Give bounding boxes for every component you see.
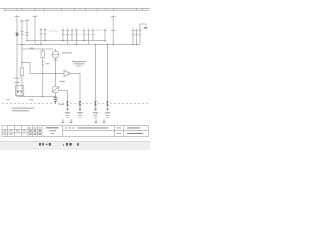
- separator dashed line: [2, 103, 149, 105]
- title block revision ticks: [62, 120, 106, 123]
- amp output wire: [71, 74, 81, 111]
- bus ticks: [5, 8, 143, 10]
- connector X67: [66, 101, 69, 105]
- title block: [2, 126, 148, 137]
- terminal group TG2: [62, 31, 79, 35]
- wire below F1: [42, 58, 44, 97]
- ground G4: [107, 109, 109, 111]
- terminal group TG4 right: [132, 31, 142, 35]
- ground G3: [95, 109, 97, 111]
- wire drop x35 cap: [33, 16, 38, 18]
- fuse F1: [42, 49, 44, 51]
- note text under separator: [12, 108, 34, 109]
- bus L2: [4, 9, 150, 11]
- terminal group TG1 x41: [40, 30, 43, 34]
- contact dash x17 y78: [14, 77, 21, 79]
- K1 label: [17, 91, 19, 93]
- M1 right branch: [59, 91, 68, 111]
- node line D: [17, 96, 56, 98]
- terminal mark below P1: [54, 59, 57, 61]
- labels small text: [30, 30, 111, 118]
- net label x30: [30, 99, 34, 100]
- wire x22 vertical: [21, 20, 23, 68]
- contact dash x17 y82.5: [14, 82, 20, 84]
- title block texts: [3, 127, 143, 135]
- net label left: [7, 99, 10, 100]
- terminal group TG1 x45: [44, 30, 47, 34]
- page bottom edge: [0, 142, 150, 151]
- wire x35 vertical: [34, 15, 36, 44]
- horn B1 dome: [143, 27, 148, 28]
- bus line A: [27, 40, 105, 42]
- amp input line: [30, 73, 64, 75]
- terminal marks on F1 wire: [42, 61, 44, 63]
- wire drop x22 cap: [20, 20, 24, 22]
- connector X107: [106, 101, 109, 105]
- cross cap x113: [111, 29, 115, 31]
- ground G1: [67, 109, 69, 111]
- fuse symbol on x17: [16, 33, 19, 37]
- branch from x22: [22, 63, 30, 74]
- wire below R1: [21, 76, 23, 97]
- terminal group TG3: [83, 31, 95, 35]
- connector X95: [94, 101, 97, 105]
- wire drop x113 cap: [111, 16, 116, 18]
- ground G2: [79, 109, 81, 111]
- wire x45: [44, 29, 46, 41]
- wire drop x27 cap: [25, 20, 29, 22]
- cable arrow W1: [54, 96, 58, 99]
- wire x105: [104, 30, 106, 41]
- wire x113 vertical: [112, 16, 114, 45]
- wire below M1: [55, 93, 57, 100]
- wire x105 cap: [104, 30, 107, 32]
- junction dots: [21, 40, 137, 98]
- amplifier U1: [64, 71, 71, 77]
- wire x41: [40, 29, 42, 45]
- TG2 wires: [63, 30, 77, 45]
- bus line C: [22, 48, 53, 50]
- TG4 wires: [133, 30, 140, 45]
- resistor R1: [20, 68, 23, 76]
- horn wire top right: [140, 24, 146, 32]
- bus line B: [17, 44, 140, 46]
- wire drop x17 cap: [15, 16, 20, 18]
- wire x27 vertical: [26, 19, 28, 40]
- bus L1 top: [0, 8, 150, 10]
- terminal marks x27: [26, 32, 29, 34]
- terminal marks x22: [21, 31, 24, 33]
- long wire x95.5: [95, 45, 97, 111]
- wire x17 vertical: [16, 15, 18, 96]
- long wire x107.5: [107, 45, 109, 111]
- wire below P1: [55, 58, 57, 86]
- gauge P1: [55, 49, 57, 51]
- motor M1: [52, 86, 59, 93]
- connector X80: [79, 101, 82, 105]
- device box K1: [16, 86, 24, 96]
- footer text: [39, 143, 79, 146]
- terminal id labels: [40, 28, 141, 31]
- TG3 wires: [84, 30, 93, 45]
